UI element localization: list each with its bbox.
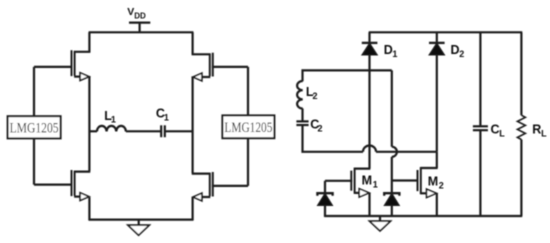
gate driver U2 LMG1205 box (222, 115, 274, 138)
wire bottom rail right circuit (324, 215, 522, 217)
transistor Q2 gate wire (212, 66, 248, 68)
wire L1 left segment (89, 130, 97, 132)
transistor Q3 source lead (74, 196, 80, 198)
transistor M1 source arrow (359, 189, 369, 197)
wire left driver vertical (33, 67, 35, 185)
inductor L2 label (306, 85, 318, 101)
svg-text:LMG1205: LMG1205 (224, 120, 272, 136)
capacitor CL plates (473, 126, 488, 130)
wire DG1 to rail (324, 205, 326, 217)
wire DG2 to rail (391, 205, 393, 216)
transistor M2 source lead (420, 192, 426, 194)
transistor M2 gate bar (417, 170, 419, 191)
svg-text:L: L (499, 128, 505, 138)
transistor M2 gate wire (392, 179, 419, 181)
capacitor C1 plates (161, 125, 165, 137)
wire C1 right segment (165, 130, 193, 132)
transistor Q1 gate wire (34, 66, 72, 68)
transistor Q1 source arrow (80, 73, 89, 81)
diode D1 (362, 43, 378, 55)
wire D2 top stub (436, 32, 438, 43)
svg-text:1: 1 (164, 112, 169, 122)
svg-text:M: M (428, 174, 438, 188)
transistor Q4 gate wire (212, 185, 248, 187)
wire L1 to C1 (126, 130, 161, 132)
transistor M1 gate wire (325, 180, 352, 182)
resistor RL (517, 115, 525, 139)
transistor Q3 channel bar (74, 171, 76, 196)
transistor Q3 source arrow (80, 193, 89, 201)
svg-text:M: M (362, 174, 372, 188)
inductor L1 label (104, 109, 116, 125)
transistor Q1 drain lead (74, 51, 90, 53)
resistor RL label (532, 123, 547, 139)
transistor Q4 source lead (202, 196, 210, 198)
transistor Q3 gate wire (34, 184, 72, 186)
wire M2 source to rail (436, 193, 438, 216)
diode DG2 (384, 193, 399, 205)
svg-text:1: 1 (373, 180, 378, 190)
wire RL column upper (520, 32, 522, 115)
ground left circuit (128, 220, 149, 236)
svg-text:L: L (541, 128, 547, 138)
transistor M1 drain lead (354, 168, 370, 170)
diode DG1 (317, 193, 332, 205)
transistor Q1 source lead (74, 75, 80, 77)
wire right branch drain segment (192, 32, 194, 55)
transistor Q4 source arrow (193, 193, 202, 201)
wire left branch middle segment (88, 76, 90, 171)
transistor Q2 source lead (202, 76, 210, 78)
wire left branch drain segment (88, 32, 90, 52)
wire left branch bottom segment (88, 197, 90, 220)
wire node A hop over node B wire (392, 147, 397, 157)
transistor Q2 source arrow (193, 73, 202, 81)
transistor Q4 channel bar (209, 173, 211, 197)
wire node B to D2 column (376, 151, 437, 153)
transistor Q3 gate bar (71, 170, 73, 196)
svg-text:1: 1 (111, 115, 116, 125)
transistor M1 source lead (354, 192, 359, 194)
diode D2 (429, 43, 445, 55)
capacitor CL label (491, 123, 506, 139)
transistor M2 drain lead (420, 167, 437, 169)
gate driver U1 LMG1205 box (8, 116, 61, 138)
svg-text:R: R (532, 123, 541, 137)
capacitor C2 label (310, 118, 322, 134)
svg-text:D: D (384, 43, 393, 57)
transistor Q1 channel bar (74, 51, 76, 76)
transistor M2 label (428, 174, 444, 190)
svg-text:2: 2 (313, 91, 318, 101)
inductor L1 (97, 126, 126, 132)
wire M1 gate column (324, 181, 326, 193)
ground right circuit (370, 216, 391, 231)
wire top rail right circuit (369, 31, 523, 33)
wire D1 to M1 drain (368, 55, 370, 169)
svg-text:C: C (491, 123, 500, 137)
wire C2 down corner (303, 125, 364, 152)
wire right driver vertical (247, 67, 249, 186)
wire CL column upper (479, 32, 481, 126)
svg-text:2: 2 (459, 49, 464, 59)
diode D1 label (384, 43, 398, 59)
svg-text:DD: DD (134, 11, 146, 20)
transistor M2 source arrow (427, 189, 437, 197)
wire D1 top stub (368, 32, 370, 43)
transistor Q3 drain lead (74, 171, 90, 173)
transistor Q1 gate bar (71, 50, 73, 76)
wire right branch middle segment (192, 76, 194, 173)
wire right branch bottom segment (192, 197, 194, 220)
wire L2 top corner (303, 70, 392, 81)
transistor M2 channel bar (420, 167, 422, 194)
svg-text:2: 2 (318, 124, 323, 134)
wire node A vertical lower (391, 157, 393, 193)
wire RL column lower (520, 140, 522, 217)
wire node A vertical upper (391, 70, 393, 146)
power label VDD (127, 6, 146, 20)
wire L2 to C2 (301, 109, 303, 122)
transistor M1 gate bar (350, 171, 352, 191)
transistor M1 channel bar (354, 168, 356, 194)
transistor M1 label (362, 174, 378, 190)
transistor Q2 gate bar (212, 53, 214, 77)
transistor Q2 drain lead (192, 53, 211, 55)
wire node B to M2 drain (436, 152, 438, 168)
transistor Q4 drain lead (192, 173, 211, 175)
wire D2 to node B (436, 55, 438, 152)
transistor Q2 channel bar (209, 53, 211, 76)
transistor Q4 gate bar (212, 172, 214, 197)
svg-text:1: 1 (392, 49, 397, 59)
inductor L2 (297, 81, 303, 109)
wire CL column lower (479, 130, 481, 216)
capacitor C1 label (156, 107, 169, 123)
svg-text:D: D (451, 43, 460, 57)
wire node B hop over D1 column (363, 146, 376, 152)
diode D2 label (451, 43, 465, 59)
power symbol VDD bar (129, 23, 150, 33)
svg-text:LMG1205: LMG1205 (10, 121, 59, 137)
wire bottom rail left circuit (89, 219, 194, 221)
svg-text:2: 2 (439, 180, 444, 190)
capacitor C2 plates (296, 121, 308, 125)
wire top rail left circuit (89, 31, 194, 33)
wire M1 source to rail (368, 193, 370, 216)
